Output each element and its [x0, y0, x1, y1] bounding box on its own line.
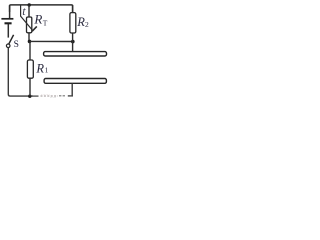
wire: R2 top lead (from top-right corner)	[72, 5, 74, 13]
svg-text:T: T	[43, 19, 48, 28]
background	[0, 0, 108, 99]
node A: junction dot top (thermistor branch)	[28, 3, 31, 6]
wire: R2 bottom lead	[72, 33, 74, 42]
capacitor bottom plate	[44, 79, 106, 84]
battery E top stub	[9, 5, 11, 18]
resistor R1 body	[27, 60, 33, 78]
thermistor RT temperature arrow (bent tail through body)	[21, 5, 33, 31]
svg-text:R: R	[35, 61, 44, 75]
battery E short plate	[5, 22, 12, 24]
wire: R1 bottom lead	[29, 78, 31, 96]
wire: top rail from battery corner to top-right corner	[10, 5, 73, 12]
node D: junction dot right of middle rail	[71, 40, 75, 44]
thermistor RT body	[27, 17, 32, 33]
wire: left rail down to bottom-left corner	[8, 48, 33, 97]
resistor R2 body	[70, 13, 76, 33]
wire: stub middle rail to capacitor top plate	[72, 42, 74, 52]
svg-text:R: R	[76, 15, 85, 29]
battery E long plate	[1, 18, 13, 20]
wire: bottom rail (faded segment under watermark)	[33, 95, 39, 97]
switch S pivot circle	[6, 44, 10, 48]
svg-text:1: 1	[45, 65, 49, 74]
svg-text:R: R	[33, 12, 42, 27]
thermistor arrowhead barb	[32, 26, 37, 31]
svg-text:2: 2	[85, 20, 89, 29]
switch S lever	[9, 35, 14, 44]
wire: thermistor top lead	[28, 5, 30, 18]
node B: junction dot bottom (R1 branch)	[28, 95, 31, 98]
node C: junction dot left of middle rail	[28, 40, 32, 44]
svg-text:......: ......	[41, 91, 50, 96]
wire: stub bottom plate to bottom rail	[71, 84, 73, 96]
wire: middle rail	[30, 40, 73, 42]
svg-text:S: S	[14, 40, 19, 50]
wire: R1 top lead	[29, 41, 31, 60]
battery bottom stub to switch contact	[7, 24, 9, 38]
wire: thermistor bottom lead	[28, 33, 30, 42]
svg-text:.....: .....	[50, 94, 56, 99]
capacitor top plate	[44, 52, 107, 56]
